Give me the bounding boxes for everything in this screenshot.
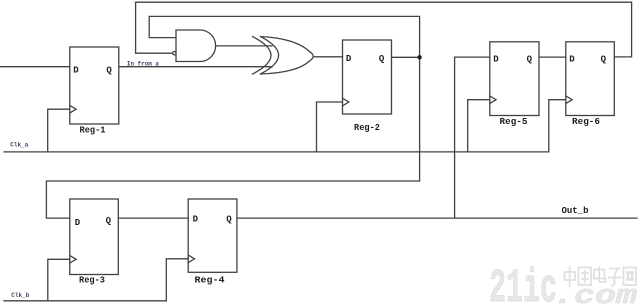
svg-text:Reg-6: Reg-6 — [572, 116, 600, 127]
svg-text:Q: Q — [379, 54, 385, 64]
svg-text:Q: Q — [601, 54, 607, 64]
svg-text:Clk_b: Clk_b — [11, 292, 29, 299]
watermark chinese characters — [565, 267, 637, 288]
wire Clk_a branch to Reg-2 clock — [317, 102, 343, 152]
svg-text:Reg-2: Reg-2 — [354, 122, 380, 133]
wire Reg-1 Q to XOR input (net In_from_a) — [119, 66, 272, 68]
and-gate U1 — [176, 30, 216, 62]
svg-text:D: D — [73, 66, 79, 76]
inverter bubble on AND input — [173, 52, 176, 55]
wire Out_b up to Reg-5 D — [455, 57, 490, 218]
wire Clk_a branch to Reg-1 clock — [48, 109, 70, 152]
flip-flop Reg-5 — [490, 42, 539, 116]
flip-flop Reg-1 — [70, 47, 119, 124]
svg-text:Q: Q — [106, 216, 112, 226]
wire inner feedback: node A to AND top input — [149, 16, 419, 57]
flip-flop Reg-3 — [70, 199, 119, 275]
svg-text:D: D — [193, 214, 199, 224]
wire Clk_b branch to Reg-4 clock — [166, 259, 188, 301]
wire net Clk_a main — [4, 151, 549, 153]
wire net Out_b from Reg-4 Q to right edge — [237, 217, 637, 219]
svg-text:Q: Q — [226, 214, 232, 224]
flip-flop Reg-4 — [188, 199, 237, 272]
svg-text:Reg-5: Reg-5 — [500, 116, 528, 127]
flip-flop Reg-6 — [566, 42, 615, 116]
svg-text:Reg-4: Reg-4 — [195, 274, 225, 285]
svg-text:Reg-3: Reg-3 — [79, 274, 105, 285]
wire node A down to Reg-3 D feedback — [46, 57, 419, 218]
svg-text:D: D — [75, 218, 81, 228]
svg-text:Q: Q — [527, 54, 533, 64]
xor-gate U2 — [253, 37, 314, 74]
svg-text:D: D — [493, 54, 499, 64]
wire Reg-5 Q to Reg-6 D — [539, 56, 566, 58]
svg-text:Clk_a: Clk_a — [10, 141, 28, 148]
node A junction dot — [417, 55, 421, 59]
svg-text:Reg-1: Reg-1 — [80, 124, 106, 135]
wire net Clk_b main — [4, 300, 166, 302]
svg-text:D: D — [569, 54, 575, 64]
wire Clk_a branch to Reg-5 clock — [468, 100, 490, 152]
wire input to Reg-1 D — [0, 66, 70, 68]
wire Reg-3 Q to Reg-4 D — [118, 217, 188, 219]
svg-text:In_from_a: In_from_a — [127, 61, 159, 68]
svg-text:Out_b: Out_b — [562, 206, 589, 216]
svg-text:Q: Q — [106, 66, 112, 76]
svg-text:21ic: 21ic — [489, 263, 557, 305]
svg-text:D: D — [346, 54, 352, 64]
wire XOR output to Reg-2 D — [314, 56, 343, 58]
wire Clk_a branch to Reg-6 clock — [549, 100, 566, 152]
flip-flop Reg-2 — [343, 40, 392, 114]
wire Reg-2 Q to node A — [392, 56, 420, 58]
wire outer feedback: Reg-6 Q to AND inverted input — [136, 2, 632, 57]
wire AND output to XOR top input — [216, 45, 272, 47]
wire Clk_b branch to Reg-3 clock — [48, 259, 70, 301]
